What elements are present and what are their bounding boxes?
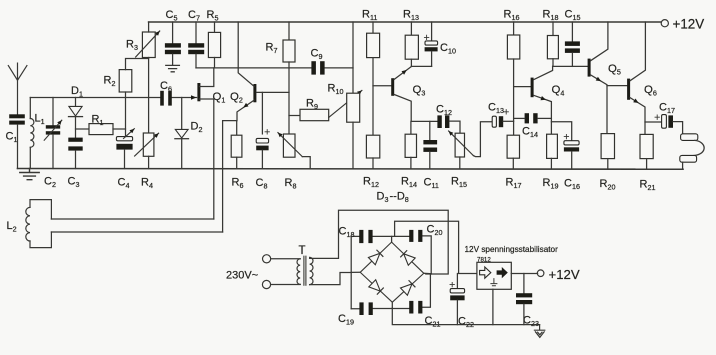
- svg-text:C8: C8: [256, 177, 268, 191]
- wire C15 top stub: [571, 22, 573, 41]
- svg-text:R12: R12: [363, 176, 379, 190]
- resistor R13: [405, 35, 418, 59]
- wire C16 to ground bus: [571, 152, 573, 169]
- svg-text:C1: C1: [6, 131, 18, 145]
- resistor R11: [367, 33, 380, 57]
- wire R1 left lead: [76, 128, 90, 130]
- svg-text:D3: D3: [377, 190, 389, 204]
- resistor R6: [231, 135, 242, 157]
- transformer core: [304, 256, 306, 285]
- svg-text:R5: R5: [207, 9, 219, 23]
- capacitor C7 top stub: [195, 22, 197, 43]
- wire C5 to its ground: [172, 54, 174, 64]
- Q2 emitter with arrow: [237, 100, 254, 120]
- resistor R1: [89, 124, 113, 135]
- svg-text:T: T: [299, 245, 306, 257]
- transformer T primary: [297, 259, 300, 285]
- wire Q5 collector to bus: [591, 22, 608, 61]
- capacitor C5: [165, 43, 181, 47]
- svg-text:C10: C10: [440, 42, 456, 56]
- inductor L2 frame: [30, 200, 51, 248]
- wire R2 bottom to C4: [125, 92, 127, 137]
- wire R20 to ground bus: [607, 159, 609, 169]
- wire mains upper lead: [271, 258, 301, 260]
- svg-text:R18: R18: [543, 9, 559, 23]
- resistor R17: [507, 135, 519, 158]
- wire Q2 collector to bus: [238, 22, 254, 86]
- wire R10 top column: [352, 22, 354, 93]
- svg-text:Q1: Q1: [213, 91, 226, 105]
- capacitor C18: [359, 230, 363, 243]
- wire R5 top to bus: [214, 22, 216, 32]
- wire R8 wiper tail to ground bus: [302, 157, 310, 169]
- wire R6 top stub: [236, 121, 238, 136]
- svg-text:Q3: Q3: [413, 84, 426, 98]
- wire speaker to ground bus: [682, 162, 684, 169]
- variable resistor R3: [142, 32, 155, 58]
- capacitor C1: [9, 114, 25, 118]
- wire mains lower lead: [271, 284, 301, 286]
- transistor Q4 base bar: [531, 78, 534, 98]
- svg-text:Q5: Q5: [608, 63, 621, 77]
- bridge stub top: [391, 236, 393, 242]
- svg-text:C11: C11: [424, 177, 439, 191]
- wire R18 bottom stub: [552, 59, 554, 67]
- wire secondary top to bridge right (outer loop): [310, 210, 449, 274]
- wire R12 to ground bus: [372, 158, 374, 169]
- capacitor C6: [160, 91, 164, 106]
- diode D2: [175, 129, 188, 138]
- Q3 emitter with arrow: [394, 67, 411, 80]
- wire Q5 base node line: [553, 65, 588, 67]
- wire D1 anode stub: [75, 98, 77, 107]
- regulator ground mark: [491, 279, 497, 286]
- electrolytic C10 plus: [424, 35, 428, 39]
- capacitor C12: [437, 115, 441, 128]
- wire L2 top lead: [51, 218, 213, 220]
- svg-text:L1: L1: [35, 113, 45, 127]
- svg-text:R4: R4: [141, 177, 153, 191]
- wire bridge bottom edge: [351, 274, 430, 309]
- wire C8 top stub: [261, 92, 263, 133]
- wire Q3 collector: [394, 95, 411, 122]
- wire regulator output: [511, 273, 537, 275]
- svg-text:R13: R13: [403, 9, 419, 23]
- svg-text:C17: C17: [659, 102, 675, 116]
- variable capacitor C4: [116, 137, 132, 141]
- electrolytic capacitor C10: [425, 41, 438, 45]
- wire C7 down to drain node line: [195, 54, 197, 68]
- capacitor C14: [525, 113, 529, 123]
- resistor R19: [547, 134, 558, 158]
- wire R1 right lead: [113, 128, 126, 130]
- diode D1: [69, 106, 82, 116]
- wire R16 down to R17 (base column): [513, 59, 515, 135]
- wire R21 to ground bus: [646, 159, 648, 170]
- svg-text:R10: R10: [328, 83, 344, 97]
- mains terminal upper: [263, 255, 271, 263]
- svg-text:R17: R17: [506, 177, 522, 191]
- trimmer capacitor C2: [46, 125, 60, 128]
- R10 wiper arrow from R9: [329, 90, 362, 117]
- wire C8 to ground bus: [261, 150, 263, 168]
- svg-text:R3: R3: [126, 39, 138, 53]
- resistor R16: [507, 35, 519, 59]
- wire C22 bottom stub: [456, 300, 458, 324]
- regulator U1 box: [477, 262, 511, 289]
- wire C1 to ground bus: [17, 125, 19, 169]
- wire C2 to ground bus: [52, 135, 54, 169]
- electrolytic C8 plus: [265, 130, 269, 134]
- wire R6 to ground bus: [236, 157, 238, 168]
- wire R14 top stub: [410, 121, 412, 134]
- wire regulator ground pin: [492, 289, 494, 324]
- wire R15 bottom to ground bus: [459, 157, 461, 169]
- svg-text:C6: C6: [160, 80, 172, 94]
- svg-text:Q6: Q6: [644, 84, 657, 98]
- wire main ground bus: [18, 168, 684, 171]
- wire C17 branch: [645, 121, 662, 123]
- resistor R20: [601, 134, 614, 159]
- wire D1 to C3: [75, 117, 77, 138]
- svg-text:L2: L2: [7, 220, 17, 234]
- svg-text:C19: C19: [338, 313, 354, 327]
- gate arrowhead into Q1: [191, 95, 196, 100]
- svg-text:C22: C22: [458, 316, 474, 330]
- bridge diamond frame: [360, 242, 424, 302]
- wire C2 top stub: [52, 98, 54, 126]
- wire D2 anode stub: [181, 98, 183, 130]
- +12V output terminal circle: [537, 270, 544, 277]
- bridge stub bottom: [391, 302, 393, 308]
- wire C14 left lead: [514, 117, 525, 119]
- wire R9 left stub: [289, 115, 300, 117]
- wire C17 to speaker: [673, 122, 683, 134]
- wire Q6 base line: [607, 85, 627, 87]
- wire Q6 collector to bus: [630, 22, 645, 81]
- svg-text:C12: C12: [436, 104, 452, 118]
- svg-text:C13: C13: [488, 102, 504, 116]
- +12V terminal circle: [661, 20, 668, 27]
- wire bridge positive output: [395, 221, 477, 273]
- svg-text:R1: R1: [92, 114, 104, 128]
- variable resistor R10 body: [347, 93, 360, 122]
- wire C18/C19 left column: [350, 236, 352, 308]
- wire C15 bottom stub: [571, 53, 573, 67]
- wire Q4 base stub: [514, 86, 531, 88]
- wire bridge top edge: [351, 236, 431, 274]
- capacitor C23: [516, 293, 532, 297]
- wire C12 to R15 top: [449, 121, 460, 133]
- svg-text:R16: R16: [504, 9, 520, 23]
- wire R15 wiper to C13: [473, 122, 492, 157]
- svg-text:C15: C15: [565, 9, 581, 23]
- wire R13 top stub: [410, 22, 412, 35]
- transformer T secondary: [310, 257, 313, 284]
- wire R14 to ground bus: [410, 157, 412, 168]
- wire secondary bottom to bridge left: [310, 273, 352, 285]
- svg-text:Q4: Q4: [552, 84, 565, 98]
- node line drain/R5/R7/C9: [196, 67, 353, 69]
- electrolytic C17 plus: [655, 115, 659, 119]
- regulator input arrow (outline): [480, 267, 491, 278]
- ground symbol (main): [20, 169, 39, 180]
- svg-text:R8: R8: [285, 177, 297, 191]
- electrolytic capacitor C16: [564, 141, 579, 145]
- svg-text:D2: D2: [191, 121, 203, 135]
- capacitor C19: [359, 302, 363, 315]
- transistor Q5 base bar: [588, 59, 591, 77]
- wire R13 bottom stub: [410, 59, 412, 66]
- wire R17 to ground bus: [512, 158, 514, 169]
- svg-text:C4: C4: [118, 177, 130, 191]
- variable resistor R4: [143, 133, 154, 156]
- wire emitter node line: [411, 65, 431, 67]
- wire main input node (L1/C2/D1/R2 line): [30, 97, 196, 99]
- wire R7 top to bus: [288, 22, 290, 40]
- electrolytic capacitor C22: [450, 289, 464, 293]
- resistor R14: [405, 134, 416, 157]
- resistor R9: [300, 109, 329, 120]
- transistor Q3 base bar: [391, 78, 394, 96]
- wire C4 to ground bus: [124, 150, 126, 169]
- bridge stub left: [351, 271, 360, 273]
- resistor R18: [547, 36, 558, 59]
- wire R3 top to bus: [148, 22, 150, 32]
- wire C23 bottom stub: [523, 304, 525, 324]
- wire L1 top stub: [29, 98, 31, 119]
- transistor Q6 base bar: [627, 79, 630, 100]
- wire C11 top stub: [429, 121, 431, 140]
- wire Q2 base stub: [256, 91, 289, 93]
- wire collector node line: [411, 120, 437, 122]
- capacitor C21: [409, 301, 413, 314]
- wire C10 bottom stub: [431, 51, 433, 66]
- svg-text:C2: C2: [44, 176, 56, 190]
- transistor Q2 base bar: [253, 84, 256, 102]
- bridge diode top-right: [404, 254, 416, 265]
- bridge stub right: [424, 272, 431, 274]
- capacitor C9: [311, 61, 316, 74]
- capacitor C7: [188, 43, 204, 47]
- svg-text:Q2: Q2: [230, 91, 243, 105]
- wire R11 top stub: [372, 22, 374, 33]
- svg-text:R21: R21: [640, 179, 656, 193]
- wire bridge negative output: [392, 308, 539, 325]
- wire Q1 source down to L2: [200, 99, 214, 219]
- inductor L1: [30, 119, 34, 148]
- regulator output arrow (solid): [497, 267, 508, 278]
- wire R10 to ground bus: [352, 122, 354, 168]
- svg-text:R11: R11: [362, 9, 377, 23]
- wire R7 down through base node to R8: [288, 62, 290, 134]
- wire Q4 collector: [534, 66, 553, 79]
- wire L1 to ground bus: [29, 147, 31, 168]
- wire R5 bottom: [214, 58, 216, 68]
- Q4 emitter with arrow: [534, 95, 552, 134]
- svg-text:C16: C16: [564, 178, 580, 192]
- inductor L2 winding: [26, 207, 30, 241]
- svg-text:C21: C21: [425, 315, 441, 329]
- wire R3 to R4 column: [148, 58, 150, 134]
- svg-text:12V spenningsstabilisator: 12V spenningsstabilisator: [465, 245, 559, 254]
- svg-text:C18: C18: [339, 226, 355, 240]
- wire L2 bottom lead: [51, 231, 222, 233]
- bridge diode bottom-left: [369, 280, 381, 291]
- wire R2 top jog to R3: [126, 59, 149, 70]
- svg-text:C5: C5: [166, 9, 178, 23]
- svg-text:R7: R7: [266, 42, 278, 56]
- svg-text:C23: C23: [523, 315, 539, 329]
- wire R11 down to R12: [372, 58, 374, 136]
- Q5 emitter with arrow: [591, 75, 607, 134]
- svg-text:--D8: --D8: [390, 190, 409, 204]
- antenna: [8, 63, 27, 114]
- electrolytic C13 plus: [504, 110, 508, 114]
- wire C14 right lead: [538, 117, 552, 119]
- wire L2 return to Q2 emitter node: [223, 121, 237, 232]
- bridge diode bottom-right: [401, 284, 413, 295]
- svg-text:230V~: 230V~: [226, 269, 258, 281]
- wire R19 to ground bus: [550, 158, 552, 168]
- svg-text:C14: C14: [522, 126, 538, 140]
- speaker: [681, 134, 698, 141]
- svg-text:+12V: +12V: [549, 267, 580, 282]
- capacitor C15: [565, 41, 580, 46]
- wire C22 top stub: [456, 274, 458, 289]
- svg-text:C7: C7: [188, 9, 200, 23]
- resistor R7: [283, 40, 295, 62]
- svg-text:R6: R6: [232, 177, 244, 191]
- transistor Q1 (FET) channel bar: [197, 83, 200, 101]
- wire R18 top stub: [552, 22, 554, 36]
- ground symbol under C5: [166, 65, 180, 71]
- potentiometer R15: [455, 133, 464, 157]
- electrolytic C16 plus: [564, 134, 568, 138]
- svg-text:R19: R19: [543, 177, 559, 191]
- wire +12V supply bus: [149, 21, 661, 23]
- resistor R5: [208, 32, 220, 57]
- svg-text:R9: R9: [306, 98, 318, 112]
- capacitor C13: [492, 116, 496, 127]
- wire R4 to ground bus: [148, 156, 150, 168]
- wire C3 to ground bus: [75, 151, 77, 169]
- svg-text:R14: R14: [401, 176, 417, 190]
- wire C10 top stub: [431, 22, 433, 41]
- wire D2 to ground bus: [181, 139, 183, 169]
- wire Q1 drain to R5/C7 node: [200, 68, 214, 87]
- resistor R12: [366, 135, 379, 158]
- electrolytic C22 plus: [450, 282, 454, 286]
- capacitor C17: [662, 115, 667, 129]
- wire C11 to ground bus: [429, 152, 431, 169]
- electrolytic capacitor C8: [256, 138, 268, 143]
- svg-text:R20: R20: [600, 178, 616, 192]
- svg-text:C20: C20: [427, 224, 443, 238]
- svg-text:R2: R2: [104, 75, 116, 89]
- variable resistor R8: [283, 134, 295, 157]
- svg-text:+12V: +12V: [673, 17, 705, 32]
- ground symbol (psu): [534, 325, 544, 338]
- wire C23 top stub: [523, 274, 525, 294]
- wire Q3 base stub: [373, 85, 391, 87]
- wire C13 right lead: [503, 120, 513, 122]
- mains terminal lower: [262, 280, 270, 288]
- capacitor C5 top stub: [172, 22, 174, 43]
- capacitor C3: [68, 138, 82, 142]
- resistor R2: [119, 70, 132, 92]
- svg-text:C9: C9: [311, 48, 323, 62]
- wire C16 branch: [551, 122, 571, 141]
- bridge diode top-left: [368, 253, 380, 264]
- wire R16 top stub: [513, 22, 515, 35]
- capacitor C20: [409, 230, 413, 242]
- svg-text:C3: C3: [68, 176, 80, 190]
- svg-text:D1: D1: [71, 85, 83, 99]
- resistor R21: [640, 134, 653, 158]
- Q6 emitter with arrow: [630, 98, 645, 135]
- svg-text:R15: R15: [451, 176, 467, 190]
- capacitor C11: [423, 140, 437, 144]
